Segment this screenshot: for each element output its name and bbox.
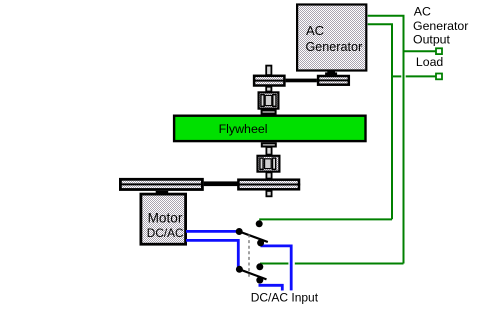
flywheel [174,116,365,141]
pulley: motor shaft [119,179,204,189]
flange: flywheel to lower coupling [262,143,276,146]
svg-text:Flywheel: Flywheel [219,122,268,136]
node: upper switch contact (blue) [257,239,264,246]
terminal: load [436,74,442,80]
shaft stub above motor [156,191,169,194]
AC generator box [297,5,366,71]
terminal: AC generator output [436,48,442,54]
node: upper switch contact (green) [256,220,263,227]
label: DC/AC Input [251,291,319,305]
wire: green to upper switch contact [259,218,392,220]
flange: coupling to flywheel [262,110,276,113]
node: lower switch contact (green) [256,263,263,270]
shaft stub below generator [325,70,337,75]
node: lower switch common [236,266,243,273]
pulley: flywheel upper shaft [253,76,286,86]
wire: generator output B (lower) down bus [368,24,392,219]
label: Load [416,55,444,69]
shaft: lower coupling to pulley [266,172,271,178]
svg-text:Motor: Motor [148,210,183,225]
wire: motor output 1 (blue) to switch common 1 [186,230,239,233]
wire: generator output A (top) to right bus [368,16,404,264]
pulley: flywheel lower shaft [237,180,300,190]
svg-text:Output: Output [413,33,450,47]
node: lower switch contact (blue) [256,277,263,284]
svg-text:Generator: Generator [306,40,363,54]
shaft stub above upper pulley [266,66,271,76]
svg-text:DC/AC: DC/AC [147,226,184,240]
shaft: upper pulley to coupling [266,87,271,92]
wire: motor output 2 (blue) down to switch common 2 [186,240,238,269]
svg-text:AC: AC [414,5,431,19]
wire: load branch (crosses other bus with gap) [392,75,436,77]
wire: output branch to terminal [404,50,436,52]
shaft stub below lower pulley [266,191,271,196]
svg-text:Load: Load [416,55,444,69]
svg-text:AC: AC [306,23,324,38]
node: upper switch common [236,228,243,235]
pulley: generator shaft [317,76,350,85]
svg-text:Generator: Generator [413,19,468,33]
belt: motor to flywheel lower shaft [204,181,238,186]
label: AC Generator Output [413,5,468,47]
wire: upper switch contact to DC/AC input (blue) [261,246,292,291]
switch blade: lower [239,269,266,279]
belt: generator to flywheel shaft [286,79,317,83]
coupling: lower [258,156,280,172]
shaft: flange to lower coupling [266,147,271,155]
wire: lower switch contact to DC/AC input (blue) [259,285,283,290]
coupling: upper [259,92,279,108]
switch blade: upper [239,232,268,243]
switch gang link (dashed) [248,235,250,278]
motor box [141,194,186,244]
wire: green to lower switch contact (gap at blue crossing) [260,263,404,265]
svg-text:DC/AC Input: DC/AC Input [251,291,319,305]
